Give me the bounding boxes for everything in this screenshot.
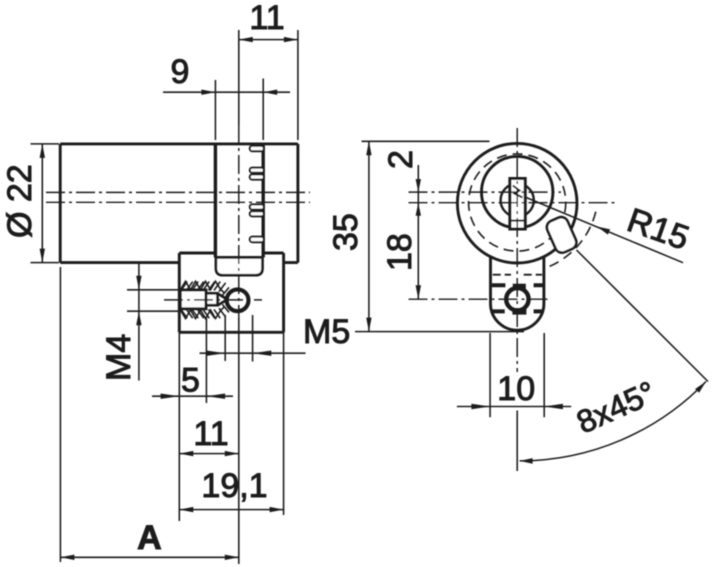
center line vertical (front view): [516, 128, 518, 372]
dimension arc 8x45: [520, 382, 706, 464]
plug section edges (side view): [215, 144, 263, 258]
foot (front view): [491, 256, 544, 330]
center line vertical plug (side view): [238, 125, 240, 318]
svg-text:Ø 22: Ø 22: [1, 164, 39, 238]
plug face circle: [482, 156, 553, 227]
dimension 2 and 18: [416, 165, 421, 299]
svg-text:19,1: 19,1: [201, 467, 267, 505]
outer circle housing: [457, 143, 577, 263]
dimension M5 leader: [200, 315, 306, 403]
cylinder body outline (side view): [60, 144, 298, 263]
dimension 10: [457, 333, 571, 417]
dimension 35: [355, 141, 524, 331]
svg-text:5: 5: [181, 362, 200, 400]
dimension 11 top: [239, 30, 298, 140]
cam swing dashed arc R15: [545, 212, 596, 269]
svg-text:A: A: [137, 519, 162, 557]
dimension 5: [152, 332, 233, 521]
mounting block (side view): [179, 253, 283, 332]
45 deg flank line: [577, 250, 709, 382]
keyway inner details: [510, 186, 525, 221]
center line ball axis (front view): [409, 298, 548, 300]
foot hidden line row 1: [493, 274, 542, 276]
key tab top: [513, 284, 526, 290]
foot hidden line row 3: [492, 309, 544, 313]
keyway slot: [510, 179, 525, 230]
dimension 11 bottom: [179, 318, 239, 564]
center line cylinder axis (side view): [46, 191, 310, 193]
center line plug axis (side view): [46, 201, 310, 203]
foot hidden line row 2: [492, 283, 544, 287]
dashed circle thread: [469, 154, 566, 251]
svg-text:2: 2: [382, 150, 420, 169]
dimension 9: [163, 79, 290, 141]
dimension Ø22: [31, 144, 60, 263]
center line vertical extension for 45 deg: [516, 411, 518, 472]
svg-text:M5: M5: [303, 313, 350, 351]
svg-text:11: 11: [193, 415, 228, 453]
M4 set screw core: [180, 290, 206, 309]
svg-text:M4: M4: [100, 334, 138, 381]
dimension M4: [127, 263, 179, 381]
dimension 19,1: [179, 332, 283, 515]
ball (side view): [227, 289, 249, 311]
center line M4 screw axis: [164, 299, 262, 301]
svg-text:35: 35: [327, 213, 365, 251]
center line cylinder axis (front view): [409, 202, 615, 204]
small circle key pin: [501, 184, 534, 217]
center line plug axis (front view): [409, 191, 562, 193]
leader R15: [525, 197, 683, 263]
ball (front view): [506, 288, 528, 310]
plug bottom tab (side view): [216, 257, 263, 275]
svg-text:9: 9: [171, 53, 190, 91]
key tab bottom: [512, 309, 526, 315]
cam lobe: [545, 215, 579, 255]
svg-text:10: 10: [497, 370, 535, 408]
svg-text:11: 11: [249, 0, 284, 37]
M4 set screw tip: [206, 293, 228, 305]
wafer teeth on plug: [250, 146, 264, 243]
dimension A: [60, 267, 238, 562]
M4 set screw threads top: [180, 281, 229, 295]
M4 set screw threads bottom: [180, 304, 229, 318]
svg-text:18: 18: [381, 233, 419, 271]
